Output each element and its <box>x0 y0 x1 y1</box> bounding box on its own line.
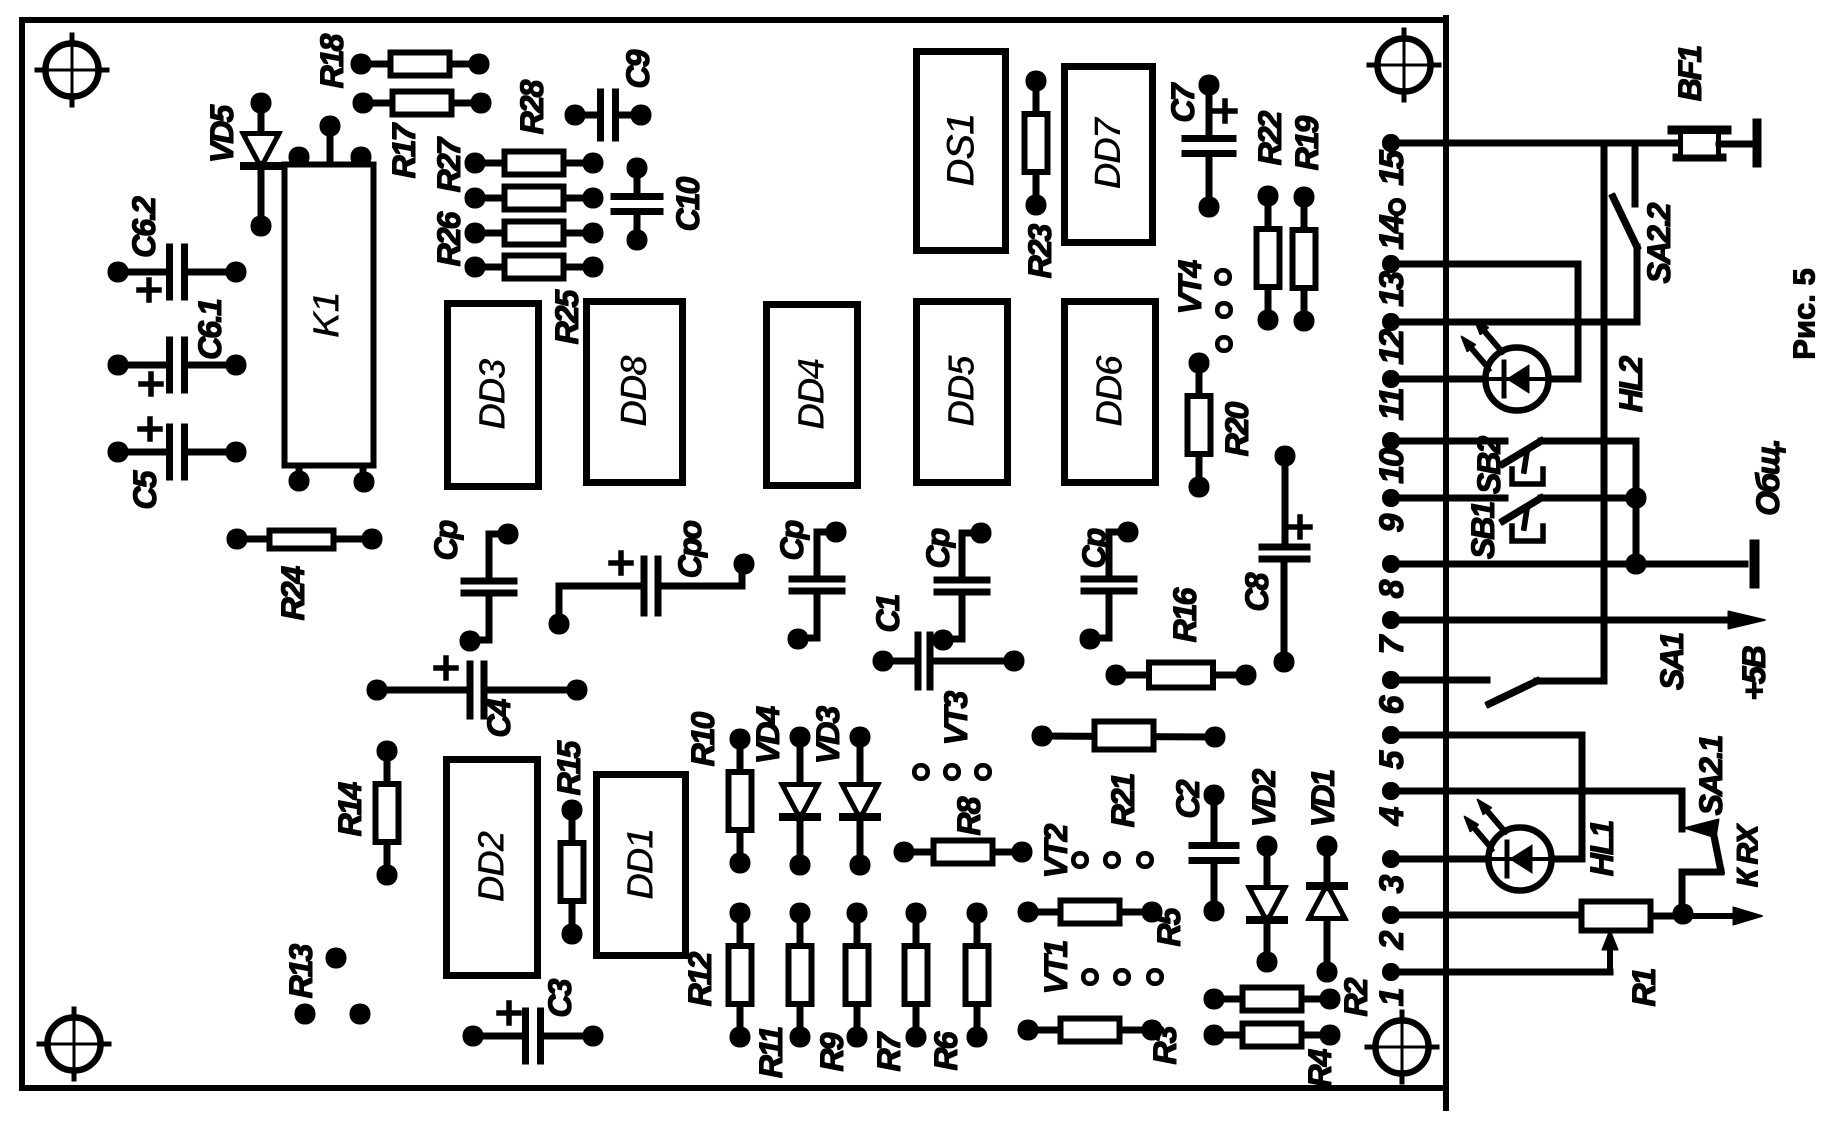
svg-text:SB1: SB1 <box>1465 502 1501 559</box>
svg-text:Cp: Cp <box>1076 528 1112 568</box>
svg-text:Рис. 5: Рис. 5 <box>1787 268 1822 359</box>
svg-text:1: 1 <box>1373 988 1411 1006</box>
svg-text:+5B: +5B <box>1736 646 1772 700</box>
svg-text:Cp: Cp <box>428 520 464 560</box>
svg-text:R6: R6 <box>928 1031 964 1070</box>
svg-text:8: 8 <box>1373 579 1411 598</box>
svg-text:BF1: BF1 <box>1672 46 1708 102</box>
svg-text:C8: C8 <box>1239 572 1275 611</box>
svg-text:R14: R14 <box>332 781 368 836</box>
svg-text:R28: R28 <box>514 79 550 134</box>
svg-text:10: 10 <box>1373 448 1411 484</box>
svg-text:DD8: DD8 <box>614 354 656 427</box>
svg-text:R8: R8 <box>951 796 987 835</box>
svg-text:R23: R23 <box>1022 223 1058 278</box>
svg-text:2: 2 <box>1373 930 1411 950</box>
svg-text:R27: R27 <box>431 135 467 192</box>
svg-text:VD3: VD3 <box>810 706 846 764</box>
svg-text:R1: R1 <box>1626 968 1662 1006</box>
svg-text:R25: R25 <box>549 288 585 344</box>
svg-text:R2: R2 <box>1338 977 1374 1016</box>
svg-text:DD5: DD5 <box>941 354 983 427</box>
svg-text:13: 13 <box>1373 271 1411 307</box>
svg-text:VD5: VD5 <box>204 104 240 163</box>
svg-text:SA2.2: SA2.2 <box>1641 202 1677 283</box>
svg-text:R15: R15 <box>551 739 587 795</box>
svg-text:R10: R10 <box>685 711 721 766</box>
svg-text:9: 9 <box>1373 513 1411 532</box>
svg-text:R20: R20 <box>1219 401 1255 456</box>
svg-text:R13: R13 <box>283 943 319 998</box>
svg-text:C6.2: C6.2 <box>126 196 162 258</box>
svg-text:R5: R5 <box>1151 906 1187 946</box>
svg-text:C1: C1 <box>870 594 906 632</box>
svg-text:12: 12 <box>1373 329 1411 365</box>
svg-text:VT3: VT3 <box>938 690 974 745</box>
svg-text:R17: R17 <box>386 121 422 178</box>
svg-text:14: 14 <box>1373 214 1411 250</box>
svg-text:Cp: Cp <box>774 520 810 560</box>
svg-text:DD6: DD6 <box>1089 354 1131 427</box>
svg-text:SB2: SB2 <box>1471 436 1507 494</box>
svg-text:DD1: DD1 <box>620 829 662 900</box>
svg-text:R26: R26 <box>431 211 467 266</box>
svg-text:C9: C9 <box>620 49 656 88</box>
svg-text:R12: R12 <box>682 951 718 1006</box>
svg-text:DS1: DS1 <box>939 114 983 187</box>
svg-text:4: 4 <box>1373 806 1411 826</box>
svg-text:HL1: HL1 <box>1584 821 1620 877</box>
svg-text:11: 11 <box>1373 388 1411 420</box>
svg-text:SA1: SA1 <box>1654 633 1690 690</box>
svg-text:DD4: DD4 <box>791 358 833 430</box>
svg-text:K1: K1 <box>306 293 348 338</box>
svg-text:C10: C10 <box>670 176 706 231</box>
svg-text:VT2: VT2 <box>1038 823 1074 878</box>
svg-text:R19: R19 <box>1289 115 1325 170</box>
svg-text:R22: R22 <box>1252 110 1288 165</box>
svg-text:R21: R21 <box>1105 773 1141 827</box>
svg-text:C6.1: C6.1 <box>192 299 228 360</box>
svg-text:R24: R24 <box>275 565 311 620</box>
svg-text:HL2: HL2 <box>1613 356 1649 413</box>
svg-text:R16: R16 <box>1167 587 1203 642</box>
svg-text:VD1: VD1 <box>1305 770 1341 827</box>
svg-text:R7: R7 <box>871 1030 907 1071</box>
svg-text:C3: C3 <box>542 978 578 1017</box>
svg-text:VT1: VT1 <box>1038 940 1074 994</box>
svg-text:VD2: VD2 <box>1246 769 1282 827</box>
svg-text:Cp: Cp <box>920 528 956 568</box>
svg-text:3: 3 <box>1373 874 1411 893</box>
svg-text:К RX: К RX <box>1732 823 1765 887</box>
svg-text:R9: R9 <box>814 1032 850 1071</box>
svg-text:DD7: DD7 <box>1088 116 1130 190</box>
svg-text:15: 15 <box>1373 149 1411 186</box>
svg-text:R3: R3 <box>1147 1025 1183 1064</box>
svg-text:C2: C2 <box>1170 779 1206 818</box>
svg-text:R4: R4 <box>1302 1048 1338 1087</box>
svg-text:R11: R11 <box>753 1027 789 1079</box>
svg-text:Общ.: Общ. <box>1750 440 1786 516</box>
svg-text:VT4: VT4 <box>1172 259 1208 314</box>
svg-text:C5: C5 <box>127 469 163 509</box>
svg-text:C4: C4 <box>481 698 517 737</box>
svg-text:DD3: DD3 <box>472 358 514 430</box>
svg-text:C7: C7 <box>1165 81 1201 122</box>
svg-text:VD4: VD4 <box>750 706 786 764</box>
svg-text:SA2.1: SA2.1 <box>1693 735 1729 815</box>
svg-text:DD2: DD2 <box>471 831 513 903</box>
svg-text:R18: R18 <box>314 33 350 88</box>
svg-text:Cpo: Cpo <box>672 520 708 578</box>
